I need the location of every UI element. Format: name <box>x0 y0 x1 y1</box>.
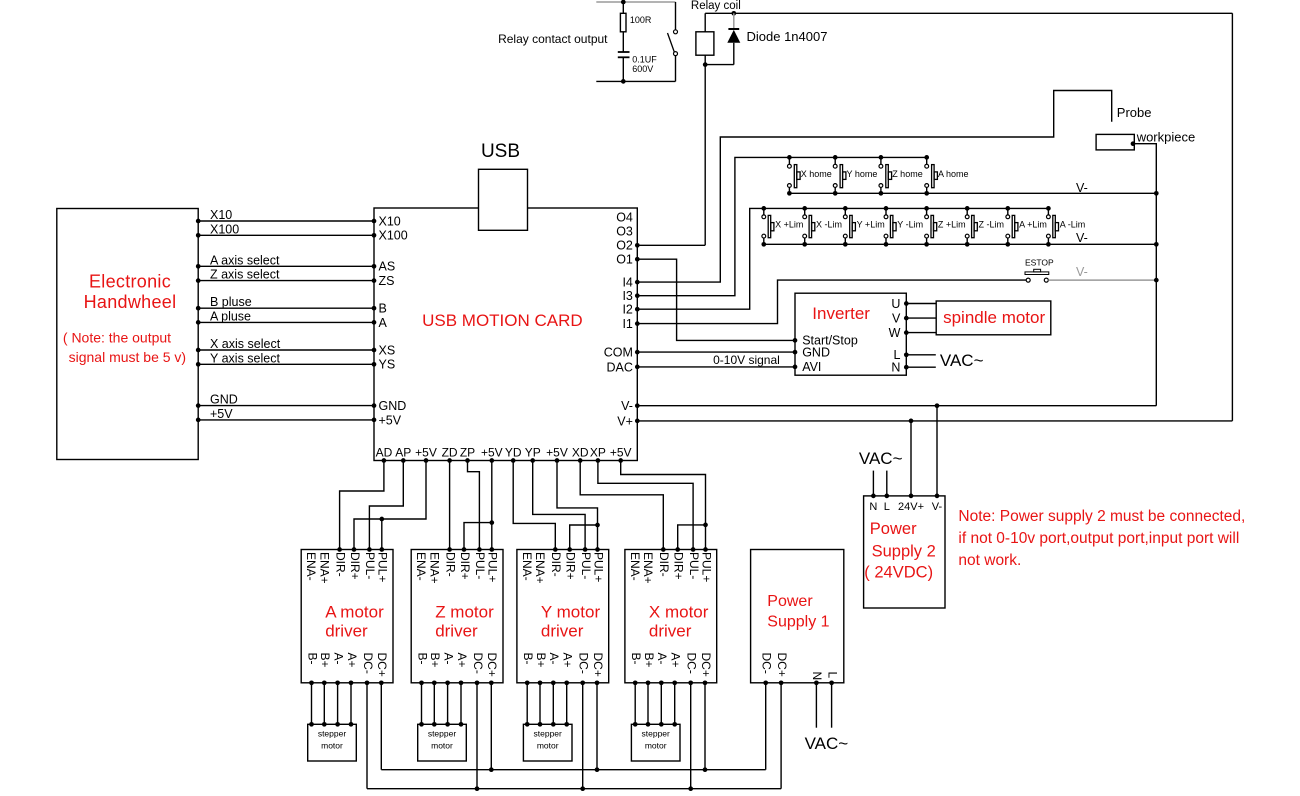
node I1 pin <box>635 321 640 326</box>
svg-text:A motor: A motor <box>325 602 384 621</box>
svg-text:ZD: ZD <box>442 446 458 460</box>
wire Z DC+ to bus <box>490 683 492 770</box>
pin V (inverter right) <box>904 316 909 321</box>
svg-text:V-: V- <box>1076 231 1088 245</box>
svg-text:DC-: DC- <box>361 653 375 674</box>
wire A driver phase <box>311 683 313 725</box>
wire +5V to PUL+/DIR+ (A) <box>354 461 426 550</box>
svg-text:ENA-: ENA- <box>304 552 318 581</box>
wire ESTOP to V- vertical <box>1048 279 1156 281</box>
wire X driver phase <box>660 683 662 725</box>
svg-text:A+: A+ <box>455 653 469 668</box>
svg-text:0.1UF: 0.1UF <box>632 55 657 65</box>
svg-text:V-: V- <box>1076 181 1088 195</box>
svg-text:AS: AS <box>379 260 396 274</box>
svg-text:B+: B+ <box>534 653 548 668</box>
switch A home <box>924 155 929 160</box>
svg-text:PUL-: PUL- <box>579 552 593 579</box>
pin AS (card left) <box>372 264 377 269</box>
svg-text:Diode 1n4007: Diode 1n4007 <box>747 29 828 44</box>
wire Y driver phase <box>566 683 568 725</box>
wire workpiece to V- vertical <box>1133 144 1156 406</box>
svg-text:spindle motor: spindle motor <box>943 308 1045 327</box>
svg-text:N: N <box>869 501 877 513</box>
svg-text:U: U <box>891 297 900 311</box>
svg-text:O3: O3 <box>616 225 633 239</box>
wire X driver phase <box>634 683 636 725</box>
wire DC- bus <box>367 788 781 790</box>
svg-text:driver: driver <box>541 622 584 641</box>
svg-text:0-10V signal: 0-10V signal <box>713 353 780 367</box>
spindle motor <box>936 301 1051 335</box>
wire Y DC- to bus <box>582 683 584 789</box>
svg-text:COM: COM <box>604 346 633 360</box>
svg-text:USB MOTION CARD: USB MOTION CARD <box>422 311 583 330</box>
svg-text:B-: B- <box>305 653 319 665</box>
svg-text:driver: driver <box>649 622 692 641</box>
node DC- bus junction <box>688 786 693 791</box>
svg-text:Note: Power supply 2 must be c: Note: Power supply 2 must be connected, <box>958 508 1245 525</box>
svg-text:GND: GND <box>379 399 407 413</box>
node DC+ bus junction <box>489 767 494 772</box>
pin L <box>884 494 889 499</box>
wire +5V to PUL+/DIR+ (X) <box>621 461 706 550</box>
svg-text:L: L <box>825 672 839 679</box>
svg-text:DC+: DC+ <box>375 653 389 677</box>
svg-text:Inverter: Inverter <box>812 304 870 323</box>
wire YP to PUL- <box>533 461 585 550</box>
wire resistor to capacitor <box>622 32 624 52</box>
inverter <box>795 293 906 375</box>
svg-text:PUL+: PUL+ <box>591 552 605 582</box>
svg-text:stepper: stepper <box>318 729 347 739</box>
pin W (inverter right) <box>904 330 909 335</box>
svg-text:A+: A+ <box>561 653 575 668</box>
stepper motor (Y) <box>523 724 572 761</box>
wire W to spindle motor <box>906 332 936 334</box>
wire XD to DIR- <box>580 461 663 550</box>
node limit V- junction <box>1154 242 1159 247</box>
svg-text:Y home: Y home <box>847 169 878 179</box>
svg-text:V: V <box>892 311 901 325</box>
capacitor 0.1UF 600V <box>618 51 630 53</box>
node snubber top junction <box>621 0 626 4</box>
svg-text:ENA+: ENA+ <box>533 552 547 584</box>
svg-text:ENA-: ENA- <box>628 552 642 581</box>
pin GND <box>793 350 798 355</box>
svg-text:V+: V+ <box>617 414 633 428</box>
svg-text:ENA+: ENA+ <box>641 552 655 584</box>
node DC- bus junction <box>580 786 585 791</box>
svg-text:A-: A- <box>655 653 669 665</box>
relay contact switch <box>675 2 677 30</box>
svg-text:USB: USB <box>481 141 520 162</box>
pin N <box>871 494 876 499</box>
svg-text:B+: B+ <box>318 653 332 668</box>
svg-text:GND: GND <box>210 393 238 407</box>
node diode cathode junction <box>731 11 736 16</box>
wire N VAC <box>906 366 936 368</box>
svg-text:not work.: not work. <box>958 552 1021 569</box>
svg-text:24V+: 24V+ <box>898 501 924 513</box>
pin B (card left) <box>372 306 377 311</box>
svg-text:X +Lim: X +Lim <box>775 220 803 230</box>
svg-text:AVI: AVI <box>802 360 821 374</box>
pin X100 (card left) <box>372 233 377 238</box>
wire handwheel Z axis select <box>198 280 374 282</box>
svg-text:Relay contact output: Relay contact output <box>498 32 608 46</box>
wire X driver phase <box>647 683 649 725</box>
wire L VAC <box>906 354 936 356</box>
svg-text:workpiece: workpiece <box>1136 130 1196 145</box>
svg-text:( 24VDC): ( 24VDC) <box>864 563 933 581</box>
A motor driver <box>301 550 393 683</box>
pin XD (card bottom) <box>578 458 583 463</box>
wire A driver phase <box>350 683 352 725</box>
svg-text:I1: I1 <box>622 317 632 331</box>
svg-text:DIR+: DIR+ <box>564 552 578 580</box>
wire limit bottom rail V- <box>764 243 1157 245</box>
svg-text:DC+: DC+ <box>775 653 789 677</box>
svg-text:+5V: +5V <box>210 407 233 421</box>
wire I3 to home rail <box>637 157 926 295</box>
svg-text:DC-: DC- <box>685 653 699 674</box>
wire I1 to ESTOP <box>637 280 1026 324</box>
svg-text:PUL+: PUL+ <box>699 552 713 582</box>
wire O2 to relay coil <box>637 244 705 246</box>
wire capacitor bottom lead <box>622 57 624 81</box>
wire PS2 L stub <box>886 471 888 496</box>
wire A DC- to bus <box>366 683 368 789</box>
svg-text:A-: A- <box>547 653 561 665</box>
svg-text:I3: I3 <box>622 289 632 303</box>
svg-text:A: A <box>379 316 388 330</box>
wire Z driver phase <box>421 683 423 725</box>
svg-text:DIR-: DIR- <box>657 552 671 577</box>
wire Y driver phase <box>552 683 554 725</box>
wire handwheel B pluse <box>198 307 374 309</box>
wire Z driver phase <box>433 683 435 725</box>
pin +5V (card bottom) <box>555 458 560 463</box>
svg-text:DAC: DAC <box>606 360 632 374</box>
svg-text:GND: GND <box>802 345 830 359</box>
wire V+ rail <box>637 420 1232 422</box>
pin YP (card bottom) <box>530 458 535 463</box>
wire relay coil top stub <box>704 13 706 32</box>
svg-text:YD: YD <box>505 446 522 460</box>
svg-text:AD: AD <box>376 446 393 460</box>
wire XP to PUL- <box>598 461 693 550</box>
wire handwheel Y axis select <box>198 363 374 365</box>
pin ZS (card left) <box>372 278 377 283</box>
wire A driver phase <box>323 683 325 725</box>
pin Start/Stop <box>793 338 798 343</box>
wire U to spindle motor <box>906 303 936 305</box>
svg-text:+5V: +5V <box>415 446 437 460</box>
X motor driver <box>625 550 717 683</box>
svg-text:ZS: ZS <box>379 274 395 288</box>
svg-text:DC-: DC- <box>471 653 485 674</box>
wire V+ right loop <box>1231 13 1233 421</box>
pin 24V+ <box>909 494 914 499</box>
switch Y -Lim <box>884 206 889 211</box>
svg-text:+5V: +5V <box>379 413 402 427</box>
svg-text:( Note: the output: ( Note: the output <box>63 329 171 345</box>
wire X DC+ to bus <box>704 683 706 770</box>
svg-text:A home: A home <box>938 169 969 179</box>
USB motion card U1 <box>374 208 637 461</box>
switch X home <box>787 155 792 160</box>
switch Z home <box>879 155 884 160</box>
svg-text:A+: A+ <box>345 653 359 668</box>
svg-text:I2: I2 <box>622 303 632 317</box>
wire ZP to PUL- <box>468 461 480 550</box>
svg-text:X10: X10 <box>379 214 401 228</box>
svg-text:L: L <box>884 501 890 513</box>
svg-text:W: W <box>889 326 901 340</box>
svg-text:stepper: stepper <box>642 729 671 739</box>
svg-text:DIR+: DIR+ <box>348 552 362 580</box>
svg-text:DC+: DC+ <box>485 653 499 677</box>
pin AD (card bottom) <box>382 458 387 463</box>
pin V- <box>935 494 940 499</box>
pin +5V (card bottom) <box>489 458 494 463</box>
wire handwheel GND <box>198 405 374 407</box>
node V+ to PS2 <box>909 419 914 424</box>
wire +5V to PUL+/DIR+ (Z) <box>491 461 493 550</box>
pin +5V (card left) <box>372 418 377 423</box>
svg-text:Y motor: Y motor <box>541 602 601 621</box>
svg-text:B-: B- <box>415 653 429 665</box>
svg-text:AP: AP <box>395 446 411 460</box>
svg-text:driver: driver <box>435 622 478 641</box>
svg-text:XS: XS <box>379 343 396 357</box>
node I4 pin <box>635 280 640 285</box>
wire AP to PUL- <box>369 461 403 550</box>
wire +5V to PUL+/DIR+ (Y) <box>557 461 598 550</box>
svg-text:N: N <box>810 672 824 681</box>
pin U (inverter right) <box>904 301 909 306</box>
svg-text:ENA+: ENA+ <box>317 552 331 584</box>
svg-text:DIR+: DIR+ <box>458 552 472 580</box>
svg-text:VAC~: VAC~ <box>940 351 984 370</box>
electronic handwheel <box>57 209 198 460</box>
wire handwheel X axis select <box>198 349 374 351</box>
wire X DC- to bus <box>690 683 692 789</box>
svg-text:Z motor: Z motor <box>435 602 494 621</box>
svg-text:I4: I4 <box>622 276 632 290</box>
wire handwheel +5V <box>198 419 374 421</box>
wire I4 probe line <box>637 91 1111 283</box>
svg-text:B: B <box>379 302 387 316</box>
svg-text:motor: motor <box>431 741 453 751</box>
svg-text:motor: motor <box>321 741 343 751</box>
svg-text:O2: O2 <box>616 239 633 253</box>
switch A +Lim <box>1005 206 1010 211</box>
svg-text:DC-: DC- <box>577 653 591 674</box>
node home V- junction <box>1154 191 1159 196</box>
svg-text:+5V: +5V <box>546 446 568 460</box>
svg-text:DC+: DC+ <box>591 653 605 677</box>
wire PS1 DC- <box>765 683 767 770</box>
node snubber bottom junction <box>621 79 626 84</box>
wire PS2 N stub <box>872 471 874 496</box>
switch A -Lim <box>1046 206 1051 211</box>
svg-text:V-: V- <box>1076 265 1088 279</box>
svg-text:if not 0-10v port,output port,: if not 0-10v port,output port,input port… <box>958 530 1239 547</box>
svg-text:X100: X100 <box>379 229 408 243</box>
switch Z -Lim <box>965 206 970 211</box>
svg-text:PUL-: PUL- <box>687 552 701 579</box>
svg-text:A-: A- <box>441 653 455 665</box>
svg-text:DIR-: DIR- <box>443 552 457 577</box>
svg-text:B-: B- <box>629 653 643 665</box>
svg-text:B+: B+ <box>642 653 656 668</box>
pin L (inverter right) <box>904 352 909 357</box>
svg-text:motor: motor <box>537 741 559 751</box>
svg-text:XP: XP <box>590 446 606 460</box>
svg-text:ESTOP: ESTOP <box>1025 257 1054 267</box>
wire Y DC+ to bus <box>596 683 598 770</box>
svg-text:DIR+: DIR+ <box>672 552 686 580</box>
power supply 1 <box>751 550 844 683</box>
svg-text:YP: YP <box>525 446 541 460</box>
svg-text:DIR-: DIR- <box>549 552 563 577</box>
svg-text:100R: 100R <box>630 15 652 25</box>
wire relay coil to O2 <box>704 55 706 245</box>
wire Y driver phase <box>526 683 528 725</box>
pin +5V (card bottom) <box>424 458 429 463</box>
wire handwheel X10 <box>198 220 374 222</box>
pin GND (card left) <box>372 403 377 408</box>
power supply 2 <box>864 496 945 608</box>
svg-text:O4: O4 <box>616 210 633 224</box>
svg-text:driver: driver <box>325 622 368 641</box>
wire Y driver phase <box>539 683 541 725</box>
wire DAC to AVI (0-10V signal) <box>637 366 795 368</box>
pin N (inverter right) <box>904 365 909 370</box>
node V- to PS2 <box>935 403 940 408</box>
pin A (card left) <box>372 320 377 325</box>
svg-text:B-: B- <box>521 653 535 665</box>
pin XP (card bottom) <box>596 458 601 463</box>
Y motor driver <box>517 550 609 683</box>
Z motor driver <box>411 550 503 683</box>
svg-text:VAC~: VAC~ <box>805 734 849 753</box>
svg-text:DIR-: DIR- <box>333 552 347 577</box>
node I3 pin <box>635 293 640 298</box>
wire A driver phase <box>337 683 339 725</box>
svg-text:V-: V- <box>932 501 943 513</box>
node ESTOP V- junction <box>1154 278 1159 283</box>
svg-text:signal must be 5 v): signal must be 5 v) <box>69 349 187 365</box>
svg-text:Supply 1: Supply 1 <box>767 614 829 631</box>
svg-text:PUL+: PUL+ <box>376 552 390 582</box>
svg-text:YS: YS <box>379 358 396 372</box>
svg-text:Y axis select: Y axis select <box>210 351 280 365</box>
svg-text:XD: XD <box>572 446 589 460</box>
svg-text:A +Lim: A +Lim <box>1019 220 1047 230</box>
svg-text:B+: B+ <box>428 653 442 668</box>
svg-text:A+: A+ <box>669 653 683 668</box>
wire PS1 N <box>815 683 817 728</box>
wire Z driver phase <box>460 683 462 725</box>
node DC+ bus junction <box>703 767 708 772</box>
svg-text:stepper: stepper <box>534 729 563 739</box>
wire YD to DIR- <box>513 461 555 550</box>
switch Y home <box>833 155 838 160</box>
svg-text:DC-: DC- <box>760 653 774 674</box>
wire handwheel A pluse <box>198 321 374 323</box>
stepper motor (A) <box>308 724 357 761</box>
wire home bottom rail V- <box>789 192 1156 194</box>
svg-text:PUL-: PUL- <box>363 552 377 579</box>
svg-text:X -Lim: X -Lim <box>816 220 842 230</box>
svg-text:Z -Lim: Z -Lim <box>979 220 1005 230</box>
USB connector <box>479 169 528 230</box>
svg-text:Probe: Probe <box>1117 105 1152 120</box>
node DC- bus junction <box>475 786 480 791</box>
pin ZD (card bottom) <box>447 458 452 463</box>
svg-text:Handwheel: Handwheel <box>84 292 177 312</box>
wire X driver phase <box>674 683 676 725</box>
pin YS (card left) <box>372 362 377 367</box>
pin YD (card bottom) <box>511 458 516 463</box>
svg-text:Z +Lim: Z +Lim <box>938 220 966 230</box>
wire ZD to DIR- <box>449 461 451 550</box>
wire I2 to limit rail <box>637 208 1048 309</box>
switch X +Lim <box>761 206 766 211</box>
svg-text:ENA-: ENA- <box>520 552 534 581</box>
svg-text:Power: Power <box>870 520 917 538</box>
svg-text:N: N <box>891 361 900 375</box>
pin AP (card bottom) <box>401 458 406 463</box>
wire V to spindle motor <box>906 317 936 319</box>
switch Y +Lim <box>843 206 848 211</box>
svg-text:Supply 2: Supply 2 <box>872 543 936 561</box>
svg-text:600V: 600V <box>632 64 653 74</box>
svg-text:A -Lim: A -Lim <box>1060 220 1086 230</box>
switch Z +Lim <box>924 206 929 211</box>
svg-text:B pluse: B pluse <box>210 295 252 309</box>
wire Z DC- to bus <box>476 683 478 789</box>
svg-text:Y +Lim: Y +Lim <box>857 220 885 230</box>
wire relay top rail to right loop <box>705 12 1232 14</box>
wire diode cathode stub <box>733 13 735 29</box>
svg-text:V-: V- <box>621 399 633 413</box>
svg-text:Y -Lim: Y -Lim <box>897 220 923 230</box>
svg-text:stepper: stepper <box>428 729 457 739</box>
wire AD to DIR- <box>340 461 384 550</box>
svg-text:ENA+: ENA+ <box>427 552 441 584</box>
wire PS1 DC+ <box>780 683 782 789</box>
wire handwheel A axis select <box>198 265 374 267</box>
svg-text:X100: X100 <box>210 222 239 236</box>
svg-text:ZP: ZP <box>460 446 475 460</box>
svg-text:Z axis select: Z axis select <box>210 268 280 282</box>
svg-text:motor: motor <box>645 741 667 751</box>
wire resistor top lead <box>622 2 624 13</box>
svg-text:PUL+: PUL+ <box>486 552 500 582</box>
svg-text:Z home: Z home <box>892 169 923 179</box>
pin +5V (card bottom) <box>618 458 623 463</box>
svg-text:DC+: DC+ <box>699 653 713 677</box>
wire handwheel X100 <box>198 234 374 236</box>
wire V- rail <box>637 405 1156 407</box>
wire COM to GND <box>637 351 795 353</box>
wire diode anode to coil bottom <box>705 64 734 66</box>
wire DC+ bus <box>381 769 765 771</box>
